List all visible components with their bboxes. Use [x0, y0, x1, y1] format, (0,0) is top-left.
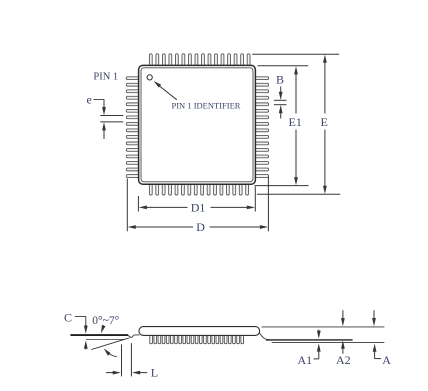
- left lead bend: [128, 335, 139, 338]
- package body top view: [139, 65, 256, 184]
- dimension A1: [298, 330, 321, 367]
- side view lead feet row: [150, 330, 244, 344]
- right pin row (16 leads): [254, 77, 269, 178]
- svg-text:e: e: [87, 92, 92, 106]
- angle callout 0 to 7 deg: [92, 315, 119, 357]
- svg-text:0°~7°: 0°~7°: [92, 315, 119, 327]
- svg-text:C: C: [64, 310, 72, 324]
- left lead foot thick line: [70, 334, 128, 336]
- svg-text:A: A: [382, 353, 391, 367]
- right lead bottom thick line: [266, 339, 353, 341]
- dimension B (lead width): [274, 72, 287, 118]
- dimension D1: [138, 187, 255, 215]
- dimension D: [127, 177, 268, 235]
- PIN 1 IDENTIFIER label and leader arrow: [154, 81, 241, 111]
- svg-text:PIN 1: PIN 1: [93, 72, 118, 83]
- dimension A: [372, 310, 391, 367]
- dimension E: [321, 55, 328, 194]
- svg-text:A1: A1: [298, 353, 313, 367]
- right lead bend: [260, 333, 270, 340]
- right top extension line: [262, 326, 385, 328]
- package body side view: [139, 327, 260, 336]
- seating plane line: [272, 341, 385, 343]
- left pin row (16 leads): [126, 77, 140, 178]
- svg-text:L: L: [151, 366, 158, 380]
- dimension C: [64, 310, 88, 349]
- svg-text:B: B: [276, 72, 284, 86]
- E / E1 extension lines: [252, 54, 340, 194]
- svg-text:D: D: [196, 220, 205, 234]
- svg-text:E: E: [321, 115, 328, 129]
- angled foot line: [91, 338, 129, 350]
- pin 1 index circle: [147, 75, 152, 80]
- lead underside line: [86, 338, 124, 340]
- top pin row (16 leads): [149, 54, 250, 67]
- dimension L: [106, 343, 158, 379]
- svg-text:A2: A2: [336, 353, 351, 367]
- dimension E1: [289, 66, 302, 185]
- svg-text:E1: E1: [289, 115, 302, 129]
- dimension e (lead pitch): [87, 92, 124, 139]
- svg-text:D1: D1: [191, 200, 206, 214]
- bottom pin row (16 leads): [149, 179, 248, 195]
- dimension A2: [336, 310, 351, 367]
- svg-text:PIN 1 IDENTIFIER: PIN 1 IDENTIFIER: [172, 101, 241, 111]
